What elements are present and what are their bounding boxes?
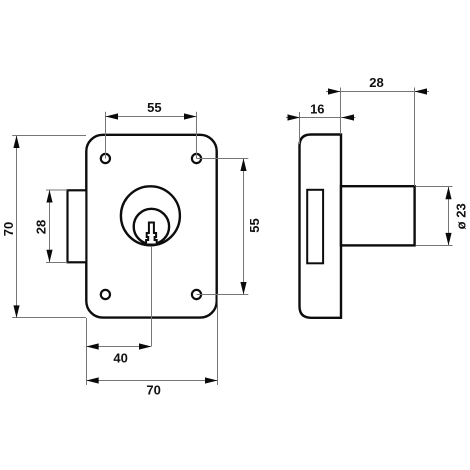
extension line dia23 top — [416, 186, 453, 188]
extension line 28 right (to cylinder top) — [414, 88, 416, 187]
svg-text:28: 28 — [34, 220, 49, 234]
dimension line 70 left — [16, 136, 18, 318]
extension line top55 left (to hole center) — [105, 112, 107, 159]
arrow 55 top right — [184, 113, 197, 119]
cylinder barrel side view — [341, 186, 415, 245]
dimension line 28 top-right — [326, 91, 429, 93]
svg-text:40: 40 — [113, 351, 127, 366]
dimension line 70 bottom — [86, 380, 217, 382]
arrow 70 bottom left — [86, 377, 99, 383]
centerline below keyhole — [151, 246, 153, 347]
extension line 28 left top — [46, 189, 68, 191]
extension line bottom right vertical — [217, 295, 219, 386]
extension line 70 left bottom — [12, 317, 86, 319]
extension line 16 left — [299, 112, 301, 144]
keyhole profile — [146, 223, 157, 245]
dimension line 55 top — [106, 116, 197, 118]
side view faceplate recess — [307, 190, 323, 263]
extension line top55 right (to hole center) — [196, 112, 198, 159]
arrow 16 right (outside, points left) — [342, 114, 355, 120]
bolt tab on left of front body — [68, 190, 87, 262]
screw hole top-left — [101, 154, 110, 163]
svg-text:28: 28 — [369, 75, 383, 90]
arrow 40 right — [139, 343, 152, 349]
svg-text:55: 55 — [147, 100, 161, 115]
arrow 40 left — [86, 343, 99, 349]
screw hole bottom-left — [101, 290, 110, 299]
arrow 55 right top — [240, 159, 246, 172]
arrow 28 right-dim right (outside, points left) — [415, 88, 428, 94]
extension line dia23 bottom — [416, 245, 453, 247]
extension line shared body right edge top — [340, 88, 342, 135]
dimension line 40 bottom — [86, 346, 150, 348]
svg-text:55: 55 — [247, 218, 262, 232]
dimension line 28 left — [49, 190, 51, 262]
arrow 28 left bottom — [46, 250, 52, 262]
arrow 55 top left — [106, 113, 119, 119]
lock side view body — [300, 135, 342, 318]
cylinder face inner circle — [134, 209, 169, 244]
extension line 55 right bottom (from hole center) — [197, 294, 249, 296]
screw hole top-right — [192, 154, 201, 163]
arrow 70 bottom right — [205, 377, 218, 383]
dimension line 55 right — [243, 159, 245, 295]
svg-text:70: 70 — [146, 383, 160, 398]
extension line bottom left vertical — [86, 318, 88, 385]
extension line 55 right top (from hole center) — [197, 158, 249, 160]
arrow 70 left top — [13, 136, 19, 149]
arrow 55 right bottom — [240, 282, 246, 295]
svg-text:ø 23: ø 23 — [454, 203, 469, 229]
arrow dia23 top — [445, 187, 451, 200]
svg-text:16: 16 — [310, 102, 324, 117]
arrow dia23 bottom — [445, 233, 451, 246]
dimension line 16 — [286, 117, 356, 119]
svg-text:70: 70 — [1, 222, 16, 236]
arrow 70 left bottom — [13, 305, 19, 318]
cylinder rosette outer circle — [121, 186, 180, 245]
dimension line dia23 — [448, 187, 450, 245]
arrow 28 left top — [46, 190, 52, 203]
lock front body plate — [86, 135, 216, 318]
extension line 70 left top — [12, 135, 86, 137]
extension line 28 left bottom — [46, 262, 68, 264]
arrow 16 left (outside, points right) — [288, 114, 301, 120]
arrow 28 right-dim left (outside, points right) — [328, 88, 341, 94]
screw hole bottom-right — [192, 290, 201, 299]
